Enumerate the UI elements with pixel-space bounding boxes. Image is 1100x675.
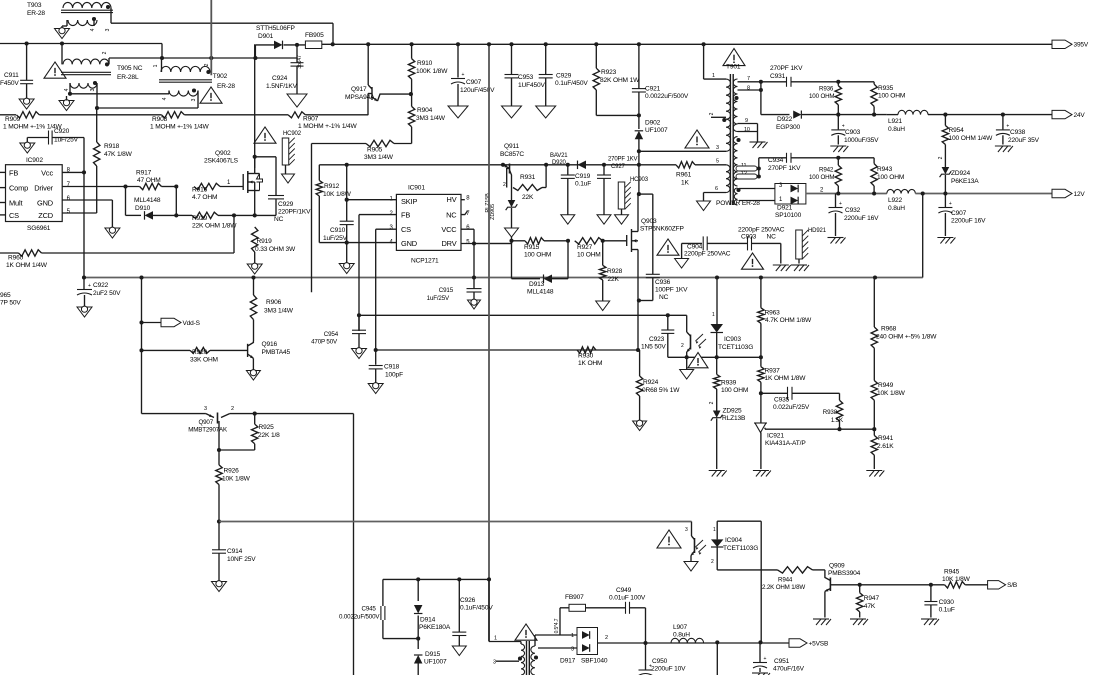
svg-text:SP10100: SP10100 (775, 212, 802, 219)
svg-text:UF1007: UF1007 (424, 659, 447, 666)
svg-text:1.5K: 1.5K (831, 417, 844, 424)
svg-text:R960: R960 (8, 255, 24, 262)
svg-text:47 OHM: 47 OHM (137, 177, 161, 184)
svg-text:470uF/16V: 470uF/16V (773, 666, 805, 673)
svg-text:R919: R919 (257, 238, 273, 245)
svg-text:965: 965 (0, 292, 11, 299)
svg-text:C919: C919 (575, 173, 591, 180)
svg-text:R904: R904 (417, 107, 433, 114)
svg-text:1 MOHM +-1% 1/4W: 1 MOHM +-1% 1/4W (298, 123, 358, 130)
svg-text:22K: 22K (522, 194, 534, 201)
svg-text:C930: C930 (939, 599, 955, 606)
svg-text:L921: L921 (888, 118, 903, 125)
svg-text:R947: R947 (864, 595, 880, 602)
svg-text:1K OHM: 1K OHM (578, 360, 602, 367)
svg-text:3: 3 (191, 98, 197, 101)
svg-text:NC: NC (274, 216, 284, 223)
svg-text:1N5 50V: 1N5 50V (641, 344, 666, 351)
svg-text:F450V: F450V (0, 80, 19, 87)
svg-text:C938: C938 (1010, 129, 1026, 136)
svg-text:ER-28: ER-28 (27, 10, 45, 17)
svg-text:MLL4148: MLL4148 (527, 289, 554, 296)
svg-text:Comp: Comp (9, 184, 28, 193)
svg-text:C907: C907 (466, 79, 482, 86)
svg-text:C910: C910 (330, 227, 346, 234)
svg-text:4: 4 (162, 97, 168, 100)
svg-text:+: + (839, 201, 842, 207)
svg-text:4.7 OHM: 4.7 OHM (192, 194, 217, 201)
svg-text:100 OHM 1/4W: 100 OHM 1/4W (949, 135, 994, 142)
svg-text:82K OHM 1W: 82K OHM 1W (600, 77, 640, 84)
svg-text:C923: C923 (649, 336, 665, 343)
svg-text:1UF450V: 1UF450V (518, 82, 546, 89)
svg-text:SBF1040: SBF1040 (581, 658, 608, 665)
svg-text:T903: T903 (27, 2, 42, 9)
svg-text:Vcc: Vcc (41, 169, 53, 178)
svg-text:10: 10 (744, 127, 750, 133)
svg-text:270PF 1KV: 270PF 1KV (770, 65, 803, 72)
svg-text:C918: C918 (384, 364, 400, 371)
svg-text:10K 1/8W: 10K 1/8W (877, 390, 906, 397)
svg-text:0.022uF/25V: 0.022uF/25V (773, 404, 810, 411)
svg-text:FB907: FB907 (565, 594, 584, 601)
svg-text:SKIP: SKIP (401, 197, 417, 206)
svg-text:3: 3 (493, 660, 496, 666)
svg-text:UF1007: UF1007 (645, 127, 668, 134)
svg-text:P6KE13A: P6KE13A (951, 178, 979, 185)
svg-text:STTH5L06FP: STTH5L06FP (256, 25, 296, 32)
svg-text:1uF/25V: 1uF/25V (323, 235, 348, 242)
svg-text:470P 50V: 470P 50V (311, 339, 338, 346)
svg-text:R930: R930 (578, 353, 594, 360)
svg-text:1: 1 (571, 633, 574, 639)
svg-text:ER-28L: ER-28L (117, 74, 139, 81)
svg-text:7: 7 (747, 76, 750, 82)
svg-text:Q903: Q903 (641, 218, 657, 225)
svg-text:KIA431A-AT/P: KIA431A-AT/P (765, 440, 806, 447)
svg-text:0.0022uF/500V: 0.0022uF/500V (339, 614, 380, 621)
svg-text:3: 3 (90, 88, 96, 91)
svg-text:Driver: Driver (34, 184, 53, 193)
svg-text:+5VSB: +5VSB (809, 640, 829, 647)
svg-text:0.5*4.7: 0.5*4.7 (554, 618, 560, 633)
svg-text:100pF: 100pF (385, 372, 403, 379)
svg-text:R942: R942 (819, 167, 834, 174)
svg-text:4: 4 (90, 28, 96, 31)
svg-text:R907: R907 (303, 116, 319, 123)
svg-text:100 OHM: 100 OHM (809, 174, 834, 181)
svg-text:C936: C936 (655, 279, 671, 286)
svg-text:22K OHM 1/8W: 22K OHM 1/8W (192, 223, 237, 230)
svg-text:R905: R905 (367, 147, 383, 154)
svg-text:120uF/450V: 120uF/450V (460, 87, 495, 94)
svg-text:100 OHM: 100 OHM (877, 174, 904, 181)
svg-text:3M3 1/4W: 3M3 1/4W (364, 154, 394, 161)
svg-text:3: 3 (685, 527, 688, 533)
svg-text:+: + (462, 72, 465, 78)
svg-text:8: 8 (747, 86, 750, 92)
svg-text:P6KE180A: P6KE180A (419, 624, 451, 631)
svg-text:10 OHM: 10 OHM (577, 252, 601, 259)
svg-text:0.33 OHM 3W: 0.33 OHM 3W (255, 246, 296, 253)
svg-text:HV: HV (447, 195, 457, 204)
svg-text:395V: 395V (1074, 42, 1089, 49)
svg-text:R915: R915 (524, 244, 540, 251)
svg-text:2: 2 (503, 182, 506, 188)
svg-text:1: 1 (712, 73, 715, 79)
svg-text:SG6961: SG6961 (27, 225, 51, 232)
svg-text:R949: R949 (878, 382, 894, 389)
svg-text:C920: C920 (54, 128, 70, 135)
svg-text:47K 1/8W: 47K 1/8W (104, 151, 133, 158)
svg-text:D917: D917 (560, 658, 576, 665)
svg-text:R968: R968 (881, 326, 897, 333)
svg-text:NCP1271: NCP1271 (411, 258, 439, 265)
svg-text:C929: C929 (278, 201, 294, 208)
svg-text:C932: C932 (845, 207, 861, 214)
svg-text:PMBTA45: PMBTA45 (262, 349, 291, 356)
svg-text:D922: D922 (777, 116, 793, 123)
svg-text:2200uF 10V: 2200uF 10V (651, 666, 686, 673)
svg-text:3M3 1/4W: 3M3 1/4W (264, 308, 294, 315)
svg-text:100 OHM: 100 OHM (524, 252, 551, 259)
svg-text:Q917: Q917 (351, 86, 367, 93)
svg-text:ER-28: ER-28 (217, 83, 235, 90)
svg-text:1K OHM 1/8W: 1K OHM 1/8W (765, 375, 807, 382)
svg-text:R937: R937 (765, 368, 781, 375)
svg-text:C922: C922 (93, 282, 109, 289)
svg-text:47K: 47K (864, 603, 876, 610)
svg-text:HD921: HD921 (808, 228, 827, 234)
svg-text:240 OHM +-5% 1/8W: 240 OHM +-5% 1/8W (876, 334, 937, 341)
svg-text:IC903: IC903 (724, 336, 741, 343)
svg-text:R941: R941 (878, 435, 894, 442)
svg-text:R936: R936 (819, 86, 834, 93)
svg-text:NC: NC (767, 234, 777, 241)
svg-text:Q909: Q909 (829, 563, 845, 570)
svg-text:R954: R954 (949, 127, 965, 134)
svg-text:R916: R916 (192, 187, 208, 194)
svg-text:1uF/25V: 1uF/25V (427, 295, 450, 302)
svg-text:R920: R920 (192, 349, 208, 356)
svg-text:RLZ13B: RLZ13B (722, 415, 746, 422)
svg-text:100K 1/8W: 100K 1/8W (416, 68, 448, 75)
svg-text:3: 3 (204, 406, 207, 412)
svg-text:STP6NK60ZFP: STP6NK60ZFP (640, 226, 685, 233)
svg-text:24V: 24V (1074, 112, 1086, 119)
svg-text:10K 1/8W: 10K 1/8W (323, 191, 352, 198)
svg-text:C929: C929 (556, 73, 572, 80)
svg-text:2200pF 250VAC: 2200pF 250VAC (684, 251, 731, 258)
svg-text:T905 NC: T905 NC (117, 65, 143, 72)
svg-text:100PF 1KV: 100PF 1KV (655, 287, 688, 294)
svg-text:ZCD: ZCD (38, 211, 53, 220)
svg-text:D914: D914 (420, 617, 436, 624)
svg-text:IC904: IC904 (725, 537, 742, 544)
svg-text:DRV: DRV (441, 239, 456, 248)
svg-text:100 OHM: 100 OHM (721, 387, 748, 394)
svg-text:2200pF 250VAC: 2200pF 250VAC (738, 227, 785, 234)
svg-text:C904: C904 (687, 244, 703, 251)
svg-text:CS: CS (401, 225, 411, 234)
svg-text:D902: D902 (645, 120, 661, 127)
svg-text:22K: 22K (608, 276, 620, 283)
svg-text:FB: FB (9, 169, 18, 178)
svg-text:2200uF 16V: 2200uF 16V (844, 215, 879, 222)
svg-text:HC903: HC903 (630, 177, 649, 183)
svg-text:Q907: Q907 (198, 419, 213, 426)
svg-text:100 OHM: 100 OHM (809, 93, 834, 100)
svg-text:3: 3 (716, 145, 719, 151)
svg-text:R927: R927 (577, 244, 593, 251)
svg-text:3: 3 (105, 28, 111, 31)
svg-text:270PF 1KV: 270PF 1KV (768, 165, 801, 172)
svg-text:R924: R924 (643, 379, 659, 386)
svg-text:100 OHM: 100 OHM (878, 93, 905, 100)
svg-text:22K 1/8: 22K 1/8 (258, 432, 280, 439)
svg-text:R925: R925 (259, 424, 275, 431)
svg-text:FB: FB (401, 211, 410, 220)
svg-text:0.1uF: 0.1uF (575, 181, 591, 188)
svg-text:2200uF 16V: 2200uF 16V (951, 218, 986, 225)
svg-text:2uF2 50V: 2uF2 50V (93, 290, 121, 297)
svg-text:Q911: Q911 (504, 143, 520, 150)
svg-text:C914: C914 (227, 548, 243, 555)
svg-text:+: + (764, 656, 767, 662)
svg-text:33K OHM: 33K OHM (190, 357, 218, 364)
svg-text:1.5NF/1KV: 1.5NF/1KV (266, 83, 298, 90)
svg-text:Q916: Q916 (262, 341, 278, 348)
svg-text:IC901: IC901 (408, 185, 425, 192)
svg-text:1 MOHM +-1% 1/4W: 1 MOHM +-1% 1/4W (150, 124, 210, 131)
svg-text:L907: L907 (673, 624, 688, 631)
svg-text:0.1uF/450V: 0.1uF/450V (555, 80, 588, 87)
svg-text:+: + (1006, 123, 1009, 129)
svg-text:Mult: Mult (9, 199, 22, 208)
svg-text:MLL4148: MLL4148 (134, 197, 161, 204)
svg-text:C903: C903 (741, 234, 757, 241)
svg-text:Vdd-S: Vdd-S (183, 320, 201, 327)
svg-text:HC902: HC902 (283, 131, 302, 137)
svg-text:ZD924: ZD924 (951, 170, 971, 177)
svg-text:R917: R917 (136, 170, 152, 177)
svg-text:1K: 1K (681, 180, 690, 187)
svg-text:L922: L922 (888, 197, 903, 204)
svg-text:BAV21: BAV21 (550, 153, 568, 159)
svg-text:5: 5 (716, 159, 719, 165)
svg-text:NC: NC (659, 294, 669, 301)
svg-text:0.8uH: 0.8uH (888, 126, 905, 133)
svg-text:S/B: S/B (1007, 582, 1017, 589)
svg-text:R931: R931 (520, 174, 536, 181)
svg-text:C951: C951 (774, 658, 790, 665)
svg-text:R908: R908 (152, 116, 168, 123)
svg-text:NC: NC (446, 211, 457, 220)
svg-text:220PF/1KV: 220PF/1KV (278, 209, 311, 216)
svg-text:0.01uF 100V: 0.01uF 100V (609, 595, 646, 602)
svg-text:PMBS3904: PMBS3904 (828, 570, 861, 577)
svg-text:4: 4 (64, 88, 70, 91)
svg-text:12V: 12V (1074, 191, 1086, 198)
svg-text:C953: C953 (518, 74, 534, 81)
svg-text:VCC: VCC (441, 225, 457, 234)
svg-text:RLZ15B: RLZ15B (485, 193, 491, 213)
svg-text:10K 1/8W: 10K 1/8W (222, 476, 251, 483)
svg-text:GND: GND (401, 239, 417, 248)
svg-text:C927: C927 (611, 164, 626, 170)
svg-text:2: 2 (711, 559, 714, 565)
svg-text:C903: C903 (845, 129, 861, 136)
svg-text:IC921: IC921 (767, 433, 784, 440)
svg-text:2.2K OHM 1/8W: 2.2K OHM 1/8W (762, 584, 805, 591)
svg-text:R938: R938 (823, 409, 838, 416)
svg-text:R929: R929 (192, 215, 208, 222)
svg-text:R928: R928 (607, 268, 623, 275)
svg-text:9: 9 (745, 118, 748, 124)
svg-text:D915: D915 (425, 651, 441, 658)
svg-text:10NF 25V: 10NF 25V (227, 556, 256, 563)
svg-text:R910: R910 (417, 60, 433, 67)
svg-text:C911: C911 (4, 72, 19, 79)
svg-text:GND: GND (37, 199, 53, 208)
svg-text:220uF 35V: 220uF 35V (1008, 137, 1040, 144)
svg-text:R944: R944 (778, 577, 793, 584)
svg-text:T901: T901 (726, 64, 741, 71)
svg-text:C950: C950 (652, 658, 668, 665)
svg-text:2: 2 (938, 156, 944, 159)
svg-text:2: 2 (605, 635, 608, 641)
svg-text:CS: CS (9, 211, 19, 220)
svg-text:D920: D920 (552, 160, 567, 166)
svg-text:R935: R935 (878, 85, 894, 92)
svg-text:0.1uF: 0.1uF (939, 607, 955, 614)
svg-text:+: + (949, 201, 952, 207)
svg-text:0.8uH: 0.8uH (673, 631, 690, 638)
svg-text:R945: R945 (944, 569, 960, 576)
svg-text:D901: D901 (258, 33, 274, 40)
svg-text:2: 2 (709, 112, 715, 115)
svg-text:4.7K OHM 1/8W: 4.7K OHM 1/8W (765, 317, 812, 324)
svg-text:7P 50V: 7P 50V (0, 300, 21, 307)
svg-text:IC902: IC902 (26, 157, 43, 164)
svg-text:R939: R939 (721, 380, 737, 387)
svg-text:C915: C915 (439, 287, 454, 294)
svg-text:R943: R943 (877, 166, 893, 173)
svg-text:ZD925: ZD925 (723, 408, 743, 415)
svg-text:2SK4067LS: 2SK4067LS (204, 158, 239, 165)
svg-text:6: 6 (715, 186, 718, 192)
svg-text:C907: C907 (951, 210, 967, 217)
svg-text:2: 2 (709, 401, 715, 404)
svg-text:EGP300: EGP300 (776, 124, 801, 131)
svg-text:C954: C954 (324, 331, 339, 338)
svg-text:R923: R923 (601, 69, 617, 76)
svg-text:T902: T902 (213, 73, 228, 80)
svg-text:1: 1 (494, 636, 497, 642)
svg-text:C924: C924 (272, 75, 288, 82)
svg-text:2.61K: 2.61K (877, 443, 894, 450)
svg-text:TCET1103G: TCET1103G (718, 344, 753, 351)
svg-text:2: 2 (231, 406, 234, 412)
svg-text:C935: C935 (774, 397, 790, 404)
svg-text:R909: R909 (5, 116, 21, 123)
svg-text:BC857C: BC857C (500, 151, 524, 158)
svg-text:2: 2 (681, 343, 684, 349)
svg-text:R926: R926 (224, 468, 240, 475)
svg-text:2: 2 (102, 51, 108, 54)
svg-text:FB905: FB905 (305, 32, 324, 39)
svg-text:R918: R918 (104, 143, 120, 150)
svg-text:TCET1103G: TCET1103G (723, 545, 758, 552)
svg-text:270PF 1KV: 270PF 1KV (608, 157, 637, 163)
svg-text:1: 1 (712, 312, 715, 318)
svg-text:Q902: Q902 (215, 150, 231, 157)
svg-text:1: 1 (713, 527, 716, 533)
svg-text:MMBT2907AK: MMBT2907AK (188, 427, 228, 434)
svg-text:MPSA94A: MPSA94A (345, 94, 375, 101)
svg-text:0.8uH: 0.8uH (888, 205, 905, 212)
svg-text:R912: R912 (324, 183, 340, 190)
svg-text:R961: R961 (676, 172, 692, 179)
svg-text:C949: C949 (616, 587, 632, 594)
svg-text:C921: C921 (645, 86, 661, 93)
svg-text:0R68 5% 1W: 0R68 5% 1W (642, 387, 680, 394)
svg-text:R963: R963 (765, 310, 781, 317)
svg-text:R906: R906 (266, 299, 282, 306)
svg-text:1000uF/35V: 1000uF/35V (844, 137, 879, 144)
svg-text:D913: D913 (529, 281, 545, 288)
svg-text:D910: D910 (135, 205, 151, 212)
svg-text:3M3 1/4W: 3M3 1/4W (416, 115, 446, 122)
svg-text:C926: C926 (460, 597, 476, 604)
svg-text:1K OHM 1/4W: 1K OHM 1/4W (6, 262, 48, 269)
svg-text:C945: C945 (362, 606, 377, 613)
svg-text:10K 1/8W: 10K 1/8W (942, 576, 971, 583)
svg-text:3: 3 (571, 647, 574, 653)
svg-text:C931: C931 (770, 73, 786, 80)
svg-text:D921: D921 (777, 205, 793, 212)
svg-text:+: + (88, 283, 91, 289)
svg-text:1: 1 (153, 64, 159, 67)
svg-text:0.0022uF/500V: 0.0022uF/500V (645, 93, 689, 100)
